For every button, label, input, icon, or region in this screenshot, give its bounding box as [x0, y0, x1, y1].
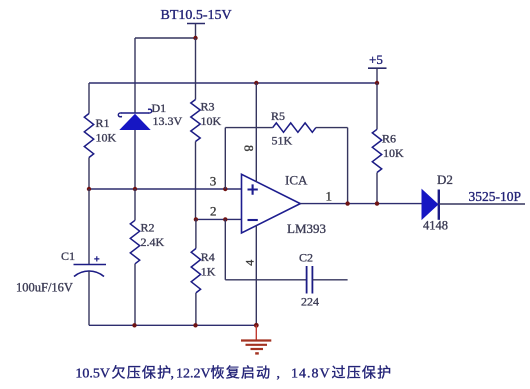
svg-text:13.3V: 13.3V — [153, 114, 183, 128]
label R3 — [201, 100, 215, 114]
svg-text:R1: R1 — [96, 116, 110, 130]
svg-text:3: 3 — [210, 174, 217, 189]
wire pin8 — [255, 83, 257, 182]
label R4 — [201, 250, 215, 264]
node +5 label — [369, 52, 383, 67]
diode D2 — [422, 190, 439, 220]
svg-text:压: 压 — [347, 367, 361, 382]
value D1 13.3V — [153, 114, 183, 128]
svg-text:护: 护 — [157, 366, 171, 382]
svg-text:,: , — [171, 367, 175, 382]
svg-text:R6: R6 — [382, 132, 396, 146]
junction R1/C1 on pin3 rail — [87, 187, 91, 191]
svg-text:复: 复 — [226, 365, 240, 382]
wire +5 to rail — [376, 68, 378, 83]
wire pin3 rail — [89, 188, 242, 190]
wire BT horizontal to D1 branch — [135, 37, 196, 39]
wire output pin1 rail — [300, 203, 422, 205]
junction R5 on pin3 rail — [223, 187, 227, 191]
svg-text:1: 1 — [326, 189, 333, 204]
svg-text:14.8V: 14.8V — [291, 367, 331, 382]
resistor R3 — [191, 38, 200, 219]
svg-text:2.4K: 2.4K — [141, 235, 165, 249]
svg-text:保: 保 — [142, 366, 156, 382]
svg-text:启: 启 — [241, 366, 255, 382]
svg-text:D2: D2 — [437, 172, 453, 187]
svg-text:R2: R2 — [141, 221, 155, 235]
label R5 — [271, 109, 285, 123]
junction R4 ground — [193, 323, 197, 327]
value R5 51K — [272, 134, 293, 148]
svg-text:12.2V: 12.2V — [176, 367, 211, 382]
svg-text:R5: R5 — [271, 109, 285, 123]
wire ground rail — [89, 324, 256, 326]
junction R2 ground — [132, 323, 136, 327]
node 3525-10P — [469, 189, 522, 204]
svg-text:3525-10P: 3525-10P — [469, 189, 522, 204]
svg-text:压: 压 — [127, 367, 141, 382]
wire BT bar to junction — [195, 24, 197, 39]
svg-text:10.5V: 10.5V — [75, 367, 110, 382]
value D2 4148 — [423, 219, 448, 233]
value R6 10K — [383, 146, 404, 160]
svg-text:4148: 4148 — [423, 219, 448, 233]
label C1 — [61, 249, 75, 263]
pin number 2 — [210, 204, 217, 219]
resistor R4 — [191, 219, 200, 325]
svg-text:R4: R4 — [201, 250, 215, 264]
wire pin2 rail — [196, 218, 242, 220]
svg-text:1K: 1K — [201, 265, 216, 279]
capacitor C2 — [225, 219, 347, 293]
battery terminal bar BT — [187, 23, 205, 25]
svg-text:C2: C2 — [299, 251, 313, 265]
junction C2 branch pin2 — [223, 217, 227, 221]
svg-text:R3: R3 — [201, 100, 215, 114]
wire top rail +V — [89, 82, 377, 84]
pin number 3 — [210, 174, 217, 189]
label ICA — [285, 173, 308, 188]
value R3 10K — [201, 114, 222, 128]
capacitor C1 — [74, 189, 107, 325]
junction R5/C2 on output — [345, 201, 349, 205]
svg-text:224: 224 — [301, 295, 319, 309]
junction ground node — [254, 323, 259, 328]
svg-text:100uF/16V: 100uF/16V — [16, 281, 73, 295]
junction +5 rail — [375, 81, 379, 85]
caption text — [75, 365, 391, 382]
resistor R1 — [84, 83, 93, 189]
svg-text:10K: 10K — [201, 114, 222, 128]
wire D2 output — [439, 203, 525, 205]
value R1 10K — [96, 131, 117, 145]
label C2 — [299, 251, 313, 265]
junction D1/R2 on pin3 rail — [133, 187, 137, 191]
pin number 1 — [326, 189, 333, 204]
zener diode D1 — [118, 108, 151, 189]
value R2 2.4K — [141, 235, 165, 249]
junction R3/R4 pin2 — [194, 217, 198, 221]
svg-text:4: 4 — [242, 260, 256, 266]
svg-text:BT10.5-15V: BT10.5-15V — [161, 8, 232, 23]
svg-text:保: 保 — [362, 366, 376, 382]
svg-text:欠: 欠 — [112, 366, 126, 382]
label R1 — [96, 116, 110, 130]
junction pin8 on top rail — [254, 81, 258, 85]
value R4 1K — [201, 265, 216, 279]
label R6 — [382, 132, 396, 146]
wire pin4 — [255, 226, 257, 326]
svg-text:10K: 10K — [383, 146, 404, 160]
resistor R6 — [372, 83, 381, 204]
ground — [241, 325, 271, 353]
pin number 4 — [242, 260, 256, 266]
svg-text:D1: D1 — [152, 101, 167, 115]
svg-text:51K: 51K — [272, 134, 293, 148]
svg-text:恢: 恢 — [211, 366, 225, 382]
svg-text:C1: C1 — [61, 249, 75, 263]
pin number 8 — [242, 145, 257, 152]
op-amp U ICA LM393 — [242, 174, 301, 233]
resistor R2 — [130, 189, 139, 325]
terminal bar +5 — [368, 67, 387, 69]
junction R6 on output — [375, 201, 379, 205]
wire D1 branch top vertical — [134, 38, 136, 113]
label D1 — [152, 101, 167, 115]
value LM393 — [287, 221, 326, 236]
node BT label — [161, 8, 232, 23]
resistor R5 — [225, 123, 347, 204]
label D2 — [437, 172, 453, 187]
value C1 100uF/16V — [16, 281, 73, 295]
svg-text:动: 动 — [256, 366, 270, 382]
svg-text:2: 2 — [210, 204, 217, 219]
value C2 224 — [301, 295, 319, 309]
svg-text:LM393: LM393 — [287, 221, 326, 236]
junction BT — [193, 36, 197, 40]
svg-text:护: 护 — [377, 366, 391, 382]
svg-text:8: 8 — [242, 145, 257, 152]
svg-text:,: , — [277, 367, 281, 382]
svg-text:ICA: ICA — [285, 173, 308, 188]
svg-text:过: 过 — [332, 366, 346, 382]
svg-text:10K: 10K — [96, 131, 117, 145]
svg-text:+5: +5 — [369, 52, 383, 67]
label R2 — [141, 221, 155, 235]
